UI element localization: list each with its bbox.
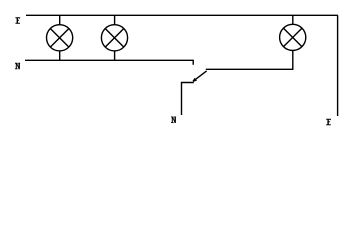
label F (left phase terminal) xyxy=(15,17,20,24)
wire: neutral line N xyxy=(25,59,193,61)
wire: L3 bottom stub xyxy=(292,50,294,70)
lamp L1 circle xyxy=(47,25,73,51)
lamp L2 xyxy=(101,15,127,60)
label N (left neutral terminal) xyxy=(15,63,20,70)
wire: from switch blade to lamp L3 xyxy=(206,68,294,70)
switch S1 blade xyxy=(193,71,207,81)
wire: L3 top stub xyxy=(292,15,294,24)
wire: L2 top stub xyxy=(114,15,116,25)
lamp L1 xyxy=(47,15,73,60)
lamp L3 xyxy=(280,15,306,70)
wire: switch pole branch from bottom N terminal xyxy=(182,83,194,116)
lamp L3 circle xyxy=(280,24,306,50)
wire: right vertical drop from phase line to F terminal xyxy=(337,15,339,116)
wire: L1 bottom stub xyxy=(59,51,61,60)
lamp L1 cross xyxy=(50,29,69,48)
lamp L3 cross xyxy=(283,28,302,47)
switch S1 xyxy=(171,60,207,123)
wire: L2 bottom stub xyxy=(114,51,116,60)
lamp L2 cross xyxy=(105,29,124,48)
label N (bottom middle terminal) xyxy=(171,117,176,124)
wire: L1 top stub xyxy=(59,15,61,25)
switch S1 fixed contact stub (from N line end) xyxy=(192,60,194,65)
wire: top phase line F xyxy=(26,14,338,16)
label F (bottom right terminal) xyxy=(326,119,331,126)
lamp L2 circle xyxy=(101,25,127,51)
switch S1 blade arrowhead xyxy=(193,78,197,81)
